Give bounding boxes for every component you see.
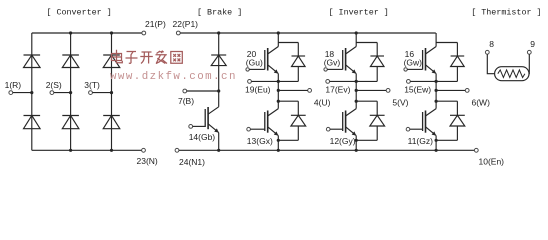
terminal 1(R) [5, 80, 22, 94]
wire W leg middle [435, 74, 437, 109]
label 18 gate pin [325, 49, 335, 59]
wire 19(Eu) stub and FWD return [251, 80, 298, 83]
label (Gu) [246, 58, 263, 68]
node converter leg 3 mid junction [110, 91, 113, 94]
terminal 8 [485, 39, 494, 54]
label 20 gate pin [247, 49, 257, 59]
wire converter P rail [32, 32, 142, 34]
terminal 17(Ev) [325, 80, 350, 95]
terminal 23(N) [137, 148, 158, 166]
svg-text:23(N): 23(N) [137, 156, 158, 166]
svg-text:24(N1): 24(N1) [179, 157, 205, 167]
transistor Q3 (lower U) collector [268, 109, 279, 116]
node W leg on N1 rail [435, 149, 438, 152]
wire 13(Gx) gate stub [250, 128, 264, 130]
transistor Q5 emitter [346, 127, 357, 136]
wire 5(V) stub [355, 89, 387, 92]
diode D3 (converter upper leg 2) [62, 55, 79, 68]
terminal 24(N1) [175, 148, 205, 167]
transistor Q3 emitter [268, 127, 279, 136]
wire U leg middle [277, 74, 279, 109]
svg-text:15(Ew): 15(Ew) [404, 84, 431, 94]
transistor Q1 body bar [207, 107, 209, 129]
terminal 20(Gu) gate [246, 68, 265, 71]
wire brake diode branch [218, 33, 220, 107]
wire N1 rail [179, 149, 475, 151]
svg-text:14(Gb): 14(Gb) [189, 132, 216, 142]
node converter leg 1 mid junction [30, 91, 33, 94]
wire converter leg 2 [70, 33, 72, 150]
wire W leg upper [435, 33, 437, 47]
wire 12(Gy) gate stub [330, 128, 343, 130]
diode D12 (upper W freewheel) [436, 43, 464, 82]
transistor Q6 gate bar [422, 50, 424, 70]
transistor Q2 gate bar [264, 50, 266, 70]
transistor Q6 (upper W) collector [426, 47, 437, 55]
diode D9 (lower U freewheel) [277, 100, 306, 142]
wire V leg upper [355, 33, 357, 47]
svg-text:5(V): 5(V) [392, 97, 408, 107]
wire 11(Gz) gate stub [410, 128, 423, 130]
transistor Q3 gate bar [264, 112, 266, 131]
label (Gw) [404, 58, 423, 68]
transistor Q4 emitter [346, 65, 357, 74]
transistor Q1 emitter [208, 124, 219, 133]
terminal 22(P1) [173, 19, 199, 35]
transistor Q2 emitter [268, 65, 279, 74]
svg-text:4(U): 4(U) [314, 97, 331, 107]
terminal 12(Gy) gate [326, 127, 355, 146]
terminal 7(B) [178, 89, 194, 106]
svg-text:13(Gx): 13(Gx) [247, 136, 273, 146]
terminal 19(Eu) [245, 80, 271, 95]
svg-text:9: 9 [530, 39, 535, 49]
terminal 10(En) [474, 148, 504, 166]
wire W leg lower [435, 136, 437, 151]
svg-text:11(Gz): 11(Gz) [408, 136, 434, 146]
section header Brake [197, 7, 242, 17]
svg-text:22(P1): 22(P1) [173, 19, 199, 29]
transistor Q6 body bar [425, 48, 427, 71]
svg-text:(Gw): (Gw) [404, 58, 423, 68]
svg-text:2(S): 2(S) [46, 80, 62, 90]
terminal 14(Gb) gate [189, 125, 216, 142]
terminal 15(Ew) [404, 80, 431, 95]
node V leg on N1 rail [355, 149, 358, 152]
transistor Q5 (lower V) collector [346, 109, 357, 116]
wire U leg upper [277, 33, 279, 47]
transistor Q4 (upper V) collector [346, 47, 357, 55]
watermark 电子开发网 [112, 50, 183, 64]
transistor Q2 (upper U) collector [268, 47, 279, 55]
wire converter leg 3 [111, 33, 113, 150]
svg-text:[ Brake ]: [ Brake ] [197, 7, 242, 17]
node converter leg 2 mid junction [69, 91, 72, 94]
transistor Q6 emitter [426, 65, 437, 74]
transistor Q4 gate bar [342, 50, 344, 70]
thermistor TH1 body [495, 67, 529, 81]
transistor Q7 body bar [425, 111, 427, 133]
wire 4(U) stub [277, 89, 308, 92]
wire input stub 3(T) [92, 92, 111, 94]
node U leg on P1 rail [277, 31, 280, 34]
svg-text:8: 8 [489, 39, 494, 49]
wire input stub 2(S) [54, 92, 71, 94]
terminal 4(U) output [308, 89, 331, 108]
svg-text:[ Thermistor ]: [ Thermistor ] [471, 7, 541, 17]
wire 14(Gb) gate stub [193, 125, 206, 127]
svg-text:(Gv): (Gv) [324, 58, 341, 68]
svg-text:10(En): 10(En) [479, 157, 505, 167]
node converter rail junctions [69, 31, 113, 151]
svg-text:17(Ev): 17(Ev) [325, 84, 350, 94]
wire V leg lower [355, 136, 357, 151]
svg-text:12(Gy): 12(Gy) [330, 136, 356, 146]
wire 7(B) stub [187, 89, 221, 92]
terminal 11(Gz) gate [406, 127, 433, 146]
section header Inverter [329, 7, 389, 17]
diode D5 (converter upper leg 3) [103, 55, 120, 68]
transistor Q2 body bar [267, 48, 269, 71]
wire V leg middle [355, 74, 357, 109]
diode D13 (lower W freewheel) [435, 100, 465, 142]
svg-text:www.dzkfw.com.cn: www.dzkfw.com.cn [110, 71, 237, 83]
wire brake emitter to N1 [217, 133, 220, 152]
transistor Q5 body bar [345, 111, 347, 133]
transistor Q1 gate bar [204, 109, 206, 127]
terminal 9 [527, 39, 535, 54]
diode D1 (converter upper leg 1) [24, 55, 41, 68]
terminal 5(V) output [386, 89, 408, 108]
terminal 16(Gw) gate [404, 68, 423, 71]
wire thermistor lead 9 [528, 54, 530, 73]
wire 6(W) stub [435, 89, 466, 92]
label 16 gate pin [405, 49, 415, 59]
svg-text:(Gu): (Gu) [246, 58, 263, 68]
terminal 6(W) output [465, 89, 490, 108]
transistor Q7 emitter [426, 127, 437, 136]
transistor Q3 body bar [267, 111, 269, 133]
diode D11 (lower V freewheel) [355, 100, 385, 142]
node V leg on P1 rail [355, 31, 358, 34]
watermark www.dzkfw.com.cn [110, 71, 237, 83]
diode D4 (converter lower leg 2) [62, 116, 79, 129]
wire input stub 1(R) [13, 92, 32, 94]
svg-text:21(P): 21(P) [145, 19, 166, 29]
wire U leg lower [277, 136, 279, 151]
diode D2 (converter lower leg 1) [24, 116, 41, 129]
terminal 18(Gv) gate [324, 68, 343, 71]
terminal 2(S) [46, 80, 62, 94]
transistor Q1 (brake IGBT) collector [208, 107, 219, 114]
transistor Q7 (lower W) collector [426, 109, 437, 116]
section header Thermistor [471, 7, 541, 17]
label (Gv) [324, 58, 341, 68]
svg-text:[ Inverter ]: [ Inverter ] [329, 7, 389, 17]
wire 17(Ev) stub and FWD return [330, 80, 378, 83]
svg-text:1(R): 1(R) [5, 80, 22, 90]
transistor Q5 gate bar [342, 112, 344, 131]
wire P1 rail [180, 32, 436, 34]
diode D6 (converter lower leg 3) [103, 116, 120, 129]
wire converter N rail [32, 149, 142, 151]
svg-text:3(T): 3(T) [84, 80, 100, 90]
transistor Q4 body bar [345, 48, 347, 71]
svg-text:7(B): 7(B) [178, 96, 194, 106]
wire 15(Ew) stub and FWD return [410, 80, 457, 83]
svg-text:[ Converter ]: [ Converter ] [46, 7, 111, 17]
thermistor TH1 zigzag element [498, 70, 525, 78]
node brake branch on P1 rail [217, 31, 220, 34]
node U leg on N1 rail [277, 149, 280, 152]
terminal 3(T) [84, 80, 100, 94]
svg-text:19(Eu): 19(Eu) [245, 84, 271, 94]
section header Converter [46, 7, 111, 17]
svg-text:6(W): 6(W) [472, 97, 491, 107]
wire converter leg 1 [31, 33, 33, 150]
terminal 21(P) [142, 19, 166, 35]
transistor Q7 gate bar [422, 112, 424, 131]
diode D8 (upper U freewheel) [278, 43, 305, 82]
diode D7 (brake freewheel) [211, 55, 226, 66]
diode D10 (upper V freewheel) [356, 43, 384, 82]
wire thermistor lead 8 [487, 54, 494, 73]
terminal 13(Gx) gate [247, 127, 273, 146]
